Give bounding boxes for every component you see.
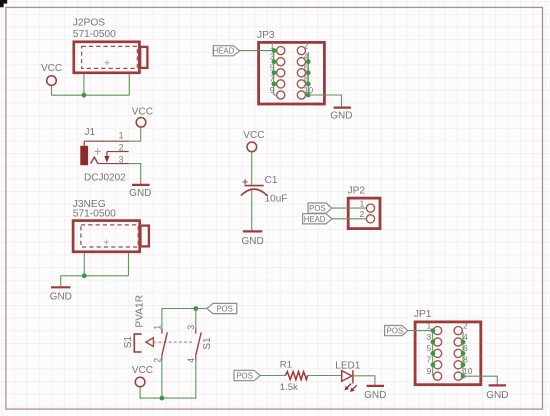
wire: J1 pin1 to VCC bbox=[129, 127, 141, 141]
net flag HEAD (JP2 pin2) bbox=[303, 214, 332, 224]
junction dot (VCC / J2POS pin) bbox=[82, 93, 87, 98]
svg-text:3: 3 bbox=[427, 332, 432, 342]
svg-text:10uF: 10uF bbox=[265, 194, 288, 205]
svg-text:1.5k: 1.5k bbox=[280, 382, 298, 393]
svg-text:2: 2 bbox=[152, 358, 162, 363]
junction dots JP1 pins 4,6,8,10 bbox=[461, 340, 466, 379]
supply symbol VCC (C1) bbox=[243, 130, 264, 152]
switch S1 PVA1R (DPST) bbox=[123, 295, 213, 363]
wire: POS flag to JP1 pin 1 bbox=[408, 330, 433, 332]
ground GND (JP3) bbox=[330, 108, 352, 122]
svg-text:GND: GND bbox=[330, 110, 352, 121]
ground GND (JP1) bbox=[486, 385, 508, 401]
svg-text:GND: GND bbox=[364, 390, 386, 401]
svg-text:S1: S1 bbox=[202, 337, 213, 350]
wire: POS flag to R1 bbox=[260, 375, 285, 377]
svg-text:4: 4 bbox=[186, 358, 196, 363]
connector J1 DCJ0202 barrel jack bbox=[81, 127, 129, 183]
wire: LED1 cathode to GND bbox=[353, 376, 375, 386]
emission arrows bbox=[347, 384, 351, 388]
resistor R1 1.5k bbox=[280, 359, 308, 393]
pin 3 bbox=[98, 163, 129, 165]
wire: JP1 even-pin bus bbox=[462, 332, 464, 376]
junction dots JP1 pins 1,3,5,7 bbox=[431, 328, 436, 367]
junction dot (S1 pin3 / POS) bbox=[193, 306, 198, 311]
plus mark bbox=[243, 179, 248, 184]
wire: VCC to C1 bbox=[251, 152, 253, 185]
svg-text:VCC: VCC bbox=[132, 365, 153, 376]
wire: VCC to S1 pins 2,4 bbox=[140, 361, 196, 399]
battery holder J3NEG 571-0500 bbox=[73, 199, 149, 252]
JP3 pin pads column 2 (pins 2,4,6,8,10) bbox=[297, 40, 313, 99]
wire: JP1 odd-pin bus bbox=[432, 331, 434, 377]
pin header JP1 bbox=[414, 309, 481, 384]
svg-text:LED1: LED1 bbox=[335, 360, 360, 371]
wire: HEAD flag to JP2 pin 2 bbox=[332, 218, 366, 220]
wire: HEAD flag to JP3 pin 1 bbox=[240, 50, 274, 52]
pin header JP3 bbox=[257, 30, 324, 104]
plug chevron bbox=[91, 157, 98, 163]
top plate bbox=[244, 185, 263, 187]
svg-text:POS: POS bbox=[309, 204, 325, 213]
center pin arrow bbox=[106, 152, 108, 157]
JP1 pin pads column 1 (pins 1,3,5,7,9) bbox=[427, 320, 442, 380]
ground GND (J1) bbox=[129, 185, 151, 199]
svg-text:2: 2 bbox=[304, 40, 309, 50]
net flag POS (R1) bbox=[234, 370, 260, 380]
svg-text:JP3: JP3 bbox=[257, 30, 275, 41]
svg-text:PVA1R: PVA1R bbox=[135, 295, 146, 328]
svg-text:JP2: JP2 bbox=[348, 186, 366, 197]
battery holder J2POS 571-0500 bbox=[73, 17, 148, 72]
svg-text:5: 5 bbox=[427, 343, 432, 353]
svg-text:JP1: JP1 bbox=[414, 309, 432, 320]
pin 2 bbox=[107, 151, 129, 153]
wire: S1 pins 1,3 to POS bbox=[162, 309, 207, 329]
svg-text:571-0500: 571-0500 bbox=[73, 29, 116, 40]
svg-text:571-0500: 571-0500 bbox=[73, 209, 116, 220]
pin 1 bbox=[84, 140, 129, 142]
JP3 pin pads column 1 (pins 1,3,5,7,9) bbox=[270, 40, 285, 99]
black corner mark bbox=[0, 0, 7, 7]
svg-text:J2POS: J2POS bbox=[73, 17, 105, 28]
wire: J1 pin3 to GND bbox=[129, 164, 141, 184]
polarity plus bbox=[94, 148, 100, 154]
svg-text:HEAD: HEAD bbox=[304, 215, 326, 224]
bottom curved plate bbox=[241, 189, 267, 196]
wire: JP3 pin 10 to GND bbox=[308, 95, 341, 107]
svg-text:R1: R1 bbox=[280, 359, 292, 370]
svg-text:VCC: VCC bbox=[243, 130, 264, 141]
svg-text:HEAD: HEAD bbox=[213, 47, 235, 56]
svg-text:2: 2 bbox=[360, 209, 365, 219]
wire: R1 to LED1 bbox=[308, 375, 342, 377]
svg-text:7: 7 bbox=[427, 355, 432, 365]
junction dot (J3NEG pin / GND) bbox=[82, 273, 87, 278]
svg-text:POS: POS bbox=[387, 327, 403, 336]
svg-text:9: 9 bbox=[427, 366, 432, 376]
svg-text:1: 1 bbox=[427, 320, 432, 330]
svg-text:1: 1 bbox=[360, 198, 365, 208]
ground GND (C1) bbox=[241, 231, 263, 247]
wire: JP1 pin 10 to GND bbox=[463, 376, 497, 385]
net flag POS (S1) bbox=[207, 303, 237, 313]
svg-text:GND: GND bbox=[129, 188, 151, 199]
svg-text:1: 1 bbox=[119, 131, 124, 141]
wire: JP3 odd-pin bus bbox=[274, 51, 277, 95]
net flag POS (JP1) bbox=[385, 326, 408, 336]
svg-text:POS: POS bbox=[216, 305, 232, 314]
net flag POS (JP2 pin1) bbox=[308, 203, 332, 213]
svg-text:POS: POS bbox=[236, 372, 252, 381]
ground GND (J3NEG) bbox=[50, 287, 72, 302]
junction dot (S1 pin2 / VCC net) bbox=[160, 396, 165, 401]
barrel body bbox=[81, 146, 88, 165]
svg-text:GND: GND bbox=[50, 291, 72, 302]
svg-text:GND: GND bbox=[486, 390, 508, 401]
pole A pins 1-2 bbox=[161, 328, 163, 333]
svg-text:S1: S1 bbox=[123, 336, 134, 349]
LED LED1 bbox=[335, 360, 360, 392]
svg-text:2: 2 bbox=[463, 320, 468, 330]
supply symbol VCC (S1) bbox=[132, 365, 153, 387]
svg-text:J1: J1 bbox=[85, 127, 96, 138]
wire: J3NEG pins to GND net bbox=[61, 253, 129, 286]
svg-text:VCC: VCC bbox=[132, 107, 153, 118]
pole B pins 3-4 bbox=[195, 328, 197, 333]
wire: C1 to GND bbox=[251, 191, 253, 231]
actuator triangle bbox=[146, 338, 154, 347]
junction dots JP3 pins 4,6,8,10 bbox=[306, 59, 311, 97]
net flag HEAD (JP3) bbox=[213, 46, 240, 56]
svg-text:1: 1 bbox=[152, 325, 162, 330]
svg-text:3: 3 bbox=[119, 154, 124, 164]
svg-text:DCJ0202: DCJ0202 bbox=[84, 173, 126, 184]
svg-text:C1: C1 bbox=[265, 175, 278, 186]
svg-text:2: 2 bbox=[119, 142, 124, 152]
junction dots JP3 pins 1,3,5,7 bbox=[272, 48, 277, 86]
wire: J2POS pin stubs to VCC net bbox=[52, 74, 130, 95]
svg-text:GND: GND bbox=[241, 236, 263, 247]
wire: JP3 even-pin bus bbox=[306, 52, 308, 95]
supply symbol VCC (J2POS) bbox=[41, 63, 62, 85]
mechanical link (dashed) bbox=[153, 341, 193, 343]
wire: POS flag to JP2 pin 1 bbox=[332, 207, 366, 209]
pin header JP2 bbox=[348, 186, 381, 229]
supply symbol VCC (J1) bbox=[132, 107, 153, 128]
svg-text:VCC: VCC bbox=[41, 63, 62, 74]
capacitor C1 10uF (polarized) bbox=[241, 175, 287, 205]
JP1 pin pads column 2 (pins 2,4,6,8,10) bbox=[454, 320, 473, 380]
ground GND (LED1) bbox=[364, 386, 386, 401]
svg-text:3: 3 bbox=[186, 325, 196, 330]
actuator bracket bbox=[134, 334, 141, 352]
